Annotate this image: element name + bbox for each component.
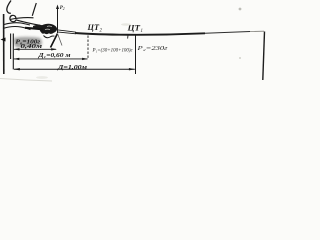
thumb shadow streak [33,25,44,29]
right page-edge rule [263,32,265,81]
svg-text:Д=1,00м: Д=1,00м [57,65,87,71]
faint smudge mid right [239,57,241,59]
wrist contour line [3,26,31,29]
knuckle highlights [45,26,52,30]
svg-text:2: 2 [63,7,65,11]
rod (ruler) main [75,33,205,35]
finger curls under fist [44,36,55,38]
left end arrow mark [1,38,6,42]
paper background [0,0,272,82]
fist blob gripping rod [40,24,57,34]
hand sketch: upper palm line [10,18,34,20]
double string / extension lines at left end [10,34,12,60]
svg-text:1: 1 [141,29,143,34]
force arrow at support [57,6,59,33]
support knife-edge [51,34,58,48]
rod right thin segment [205,32,250,34]
svg-text:ЦТ: ЦТ [86,23,100,32]
dimension D1=0,60m line [14,58,88,60]
hand sketch: lower palm line [4,23,30,25]
hand sketch: diagonal finger stroke [32,3,36,16]
ink shade over weight label block [14,37,42,48]
rod bottom edge [57,32,76,34]
dimension D=1,00m line [14,68,135,70]
left page-edge rule [3,14,5,74]
dashed extension line under ЦТ2 [87,36,89,60]
faint smudge bottom left [36,76,48,79]
svg-text:Р₁=(30+100+100)г: Р₁=(30+100+100)г [92,46,134,53]
rod right faint tip [250,30,264,32]
faint smudge top right [239,8,242,11]
rod left thick segment [25,28,43,30]
hand sketch: top curl stroke [7,1,11,14]
faint smudge above rod mid [121,23,131,25]
svg-text:Д₁=0,60 м: Д₁=0,60 м [37,53,70,59]
solid extension line under ЦТ1 [135,35,137,74]
tick under ЦТ1 label [127,35,129,38]
rod top edge [57,30,76,32]
hand sketch: thumb loop [10,15,40,25]
dimension 0,40m line [14,48,56,50]
faint bottom-left paper shadow [0,79,52,82]
svg-text:Р₂=230г: Р₂=230г [136,46,169,52]
